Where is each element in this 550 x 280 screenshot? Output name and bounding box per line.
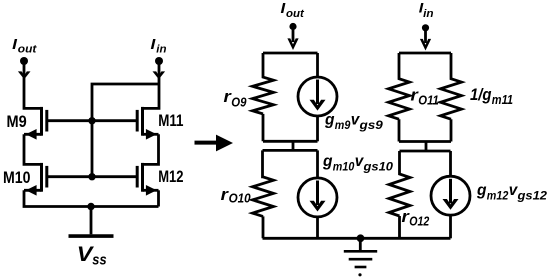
wire Iin lead [424,30,427,43]
wire M9 source to rail [24,133,42,136]
power Vss terminal bar [69,234,114,238]
arrow Iin current direction (right) [420,39,431,51]
wire box1 bottom [263,140,318,143]
svg-text:g: g [322,153,333,170]
resistor rO12 [389,151,410,238]
wire stub between box1 and box2 [292,141,295,150]
current source gm9vgs9 circle [316,53,319,77]
svg-text:O12: O12 [409,214,430,229]
node gate row 1 junction dot [88,117,95,124]
arrow Iout current direction [18,71,31,79]
transistor M11 channel bar [141,107,144,136]
node ground junction dot [357,234,365,242]
wire box2 top [263,149,318,152]
transistor M9 channel bar [40,107,43,136]
current source gm10vgs10 circle [316,150,319,178]
svg-text:M12: M12 [158,168,183,186]
transistor M10 gate bar [45,166,48,188]
wire Iout down to M9 drain [24,62,42,108]
arrow M11 source (points right) [146,129,157,140]
svg-text:M11: M11 [158,112,183,130]
node Iout (right) terminal dot [289,23,296,30]
node Iin (left) terminal dot [155,57,163,65]
node Iout (left) terminal dot [20,57,28,65]
arrow M10 source (points left) [26,185,37,196]
wire M9 gate lead [47,119,92,122]
transistor M11 gate bar [136,110,139,132]
svg-text:gs12: gs12 [516,188,547,202]
node Iin (right) terminal dot [422,24,429,31]
resistor rO11 [389,53,410,142]
wire boxB top [400,150,451,153]
node gate row 2 junction dot [88,173,95,180]
svg-text:g: g [476,182,487,199]
svg-text:gs10: gs10 [362,159,393,173]
wire rail M9 source to M10 drain [24,134,42,164]
wire boxT top [399,52,451,55]
wire M11 source to rail [143,133,159,136]
wire bottom rail (right circuit) [263,237,451,240]
svg-text:M10: M10 [3,169,31,187]
svg-text:out: out [286,8,305,20]
svg-text:1/g: 1/g [470,85,492,104]
ground [344,238,377,276]
svg-text:out: out [18,44,38,56]
wire Iout lead [292,28,295,42]
wire Iin down to M11 drain [143,62,160,108]
arrow Iin current direction [153,71,166,79]
wire diode-connection top: M11 drain to gate rail [92,84,159,177]
svg-text:m12: m12 [487,188,509,202]
resistor rO10 [253,150,274,238]
wire box1 top [263,52,318,55]
arrow inside gm12vgs12 [449,179,452,204]
wire bottom source rail [24,190,159,206]
svg-text:in: in [156,44,166,56]
wire Vss stub [90,207,93,235]
node Vss junction dot [87,203,94,210]
svg-text:gs9: gs9 [358,118,383,132]
big transform arrow [195,135,234,152]
wire boxT bottom [399,140,451,143]
wire M11 gate lead [92,119,137,122]
resistor rO9 [253,53,274,141]
transistor M10 channel bar [40,163,43,192]
transistor M12 gate bar [136,166,139,188]
transistor M12 channel bar [141,163,144,192]
wire rail M11 source to M12 drain [143,134,159,164]
svg-text:g: g [324,111,335,128]
arrow M12 source (points right) [146,185,157,196]
current source gm12vgs12 circle [449,151,452,176]
svg-text:ss: ss [92,253,106,269]
svg-text:O11: O11 [418,92,439,107]
wire M10 gate lead [47,175,92,178]
wire M12 source to rail [143,189,159,192]
arrow inside gm10vgs10 [316,181,319,206]
svg-text:m10: m10 [333,159,355,173]
arrow Iout current direction (right) [287,38,298,50]
svg-text:m9: m9 [335,118,351,132]
transistor M9 gate bar [45,110,48,132]
wire rail M12 source down [157,190,160,206]
svg-text:O9: O9 [231,95,247,110]
resistor 1/gm11 [441,53,462,142]
wire M12 gate lead [92,175,137,178]
arrow inside gm9vgs9 [316,80,319,105]
svg-text:in: in [423,8,434,20]
svg-text:m11: m11 [492,92,513,107]
wire stub between boxT and boxB [425,142,428,152]
arrow M9 source (points left) [26,129,37,140]
svg-text:M9: M9 [7,113,27,131]
svg-text:O10: O10 [229,190,252,205]
wire M10 source to rail [24,189,42,192]
